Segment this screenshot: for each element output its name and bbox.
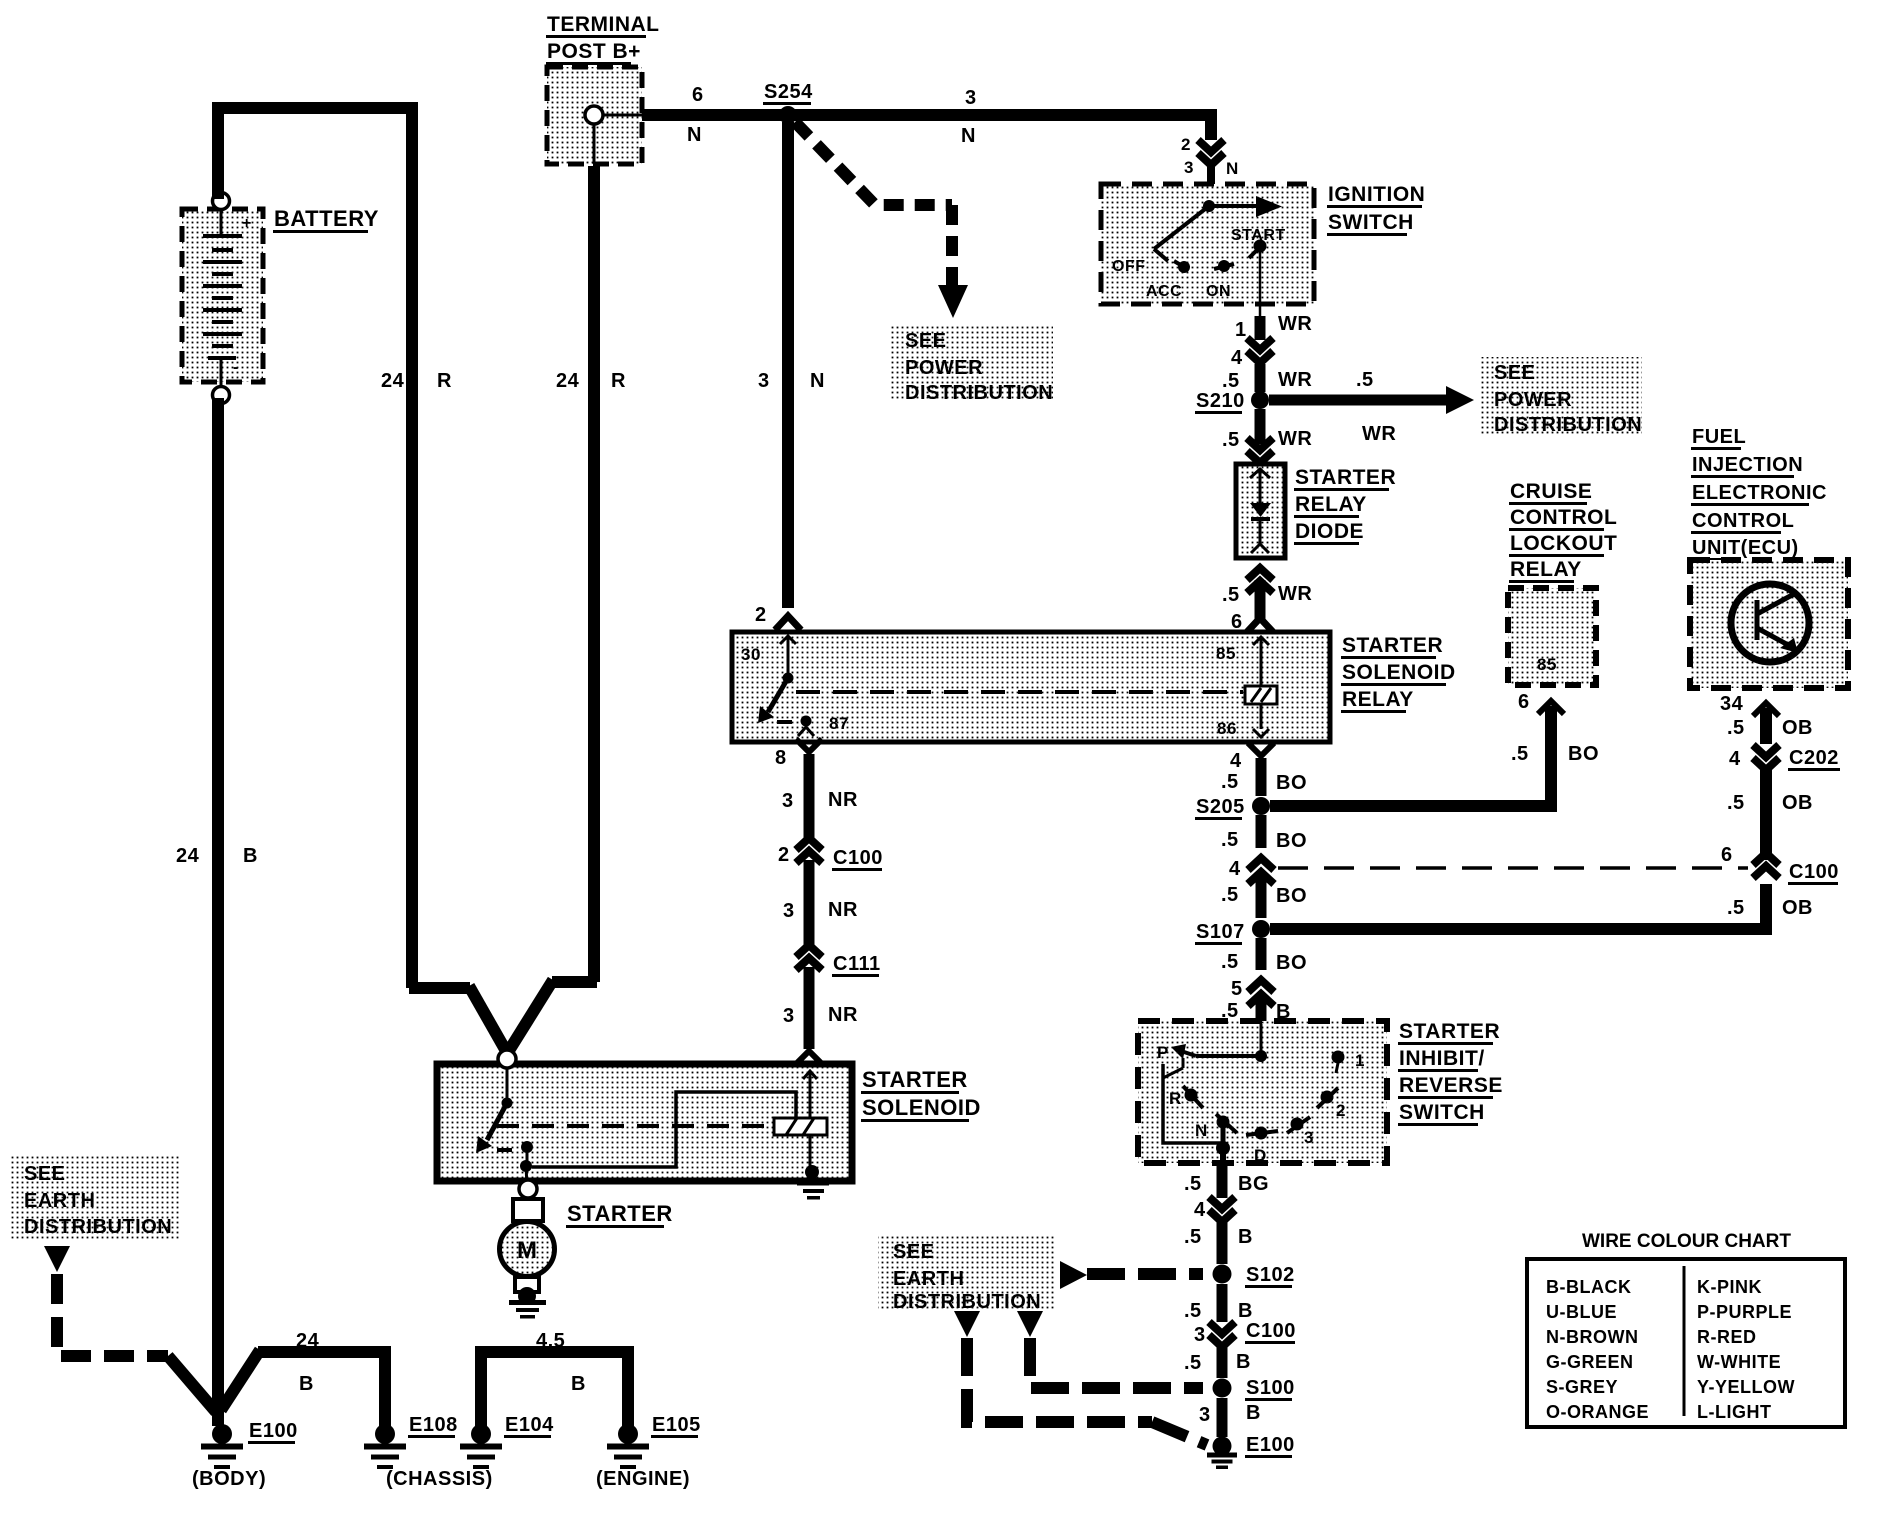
svg-text:24: 24 (176, 845, 200, 867)
svg-text:NR: NR (828, 789, 858, 811)
svg-text:STARTER: STARTER (862, 1067, 968, 1092)
svg-text:1: 1 (1235, 319, 1247, 341)
svg-text:U-BLUE: U-BLUE (1546, 1302, 1617, 1322)
svg-text:R: R (437, 370, 452, 392)
svg-text:B: B (1236, 1351, 1251, 1373)
svg-text:4: 4 (1231, 347, 1243, 369)
wire C100 to S100, .5 B (1217, 1347, 1228, 1378)
svg-text:.5: .5 (1511, 743, 1529, 765)
solenoid internal ground (797, 1181, 829, 1200)
label SEE POWER DISTRIBUTION (right) (1480, 357, 1642, 436)
svg-text:STARTER: STARTER (1399, 1020, 1500, 1043)
svg-text:NR: NR (828, 1004, 858, 1026)
label TERMINAL POST B+ (546, 13, 660, 65)
wire E104 to E105, 4.5 B (481, 1352, 628, 1426)
svg-text:C100: C100 (1789, 861, 1839, 883)
svg-text:4: 4 (1194, 1199, 1206, 1221)
label E100 right (1245, 1434, 1295, 1458)
svg-text:STARTER: STARTER (567, 1201, 673, 1226)
label 4 .5 BO (1221, 750, 1307, 794)
svg-text:+: + (242, 215, 252, 232)
node S107 (1252, 920, 1270, 938)
svg-text:O-ORANGE: O-ORANGE (1546, 1402, 1649, 1422)
svg-text:SEE: SEE (905, 330, 947, 352)
svg-text:E105: E105 (652, 1414, 701, 1436)
fork pin 30 entry (775, 616, 801, 630)
svg-text:24: 24 (296, 1330, 320, 1352)
label .5 B (1184, 1300, 1253, 1322)
label 8 (775, 747, 787, 769)
svg-text:B-BLACK: B-BLACK (1546, 1277, 1631, 1297)
connector C100 bottom (1209, 1322, 1235, 1347)
arrow down 2 (1017, 1311, 1203, 1388)
label (CHASSIS) (386, 1468, 493, 1490)
svg-text:S100: S100 (1246, 1377, 1295, 1399)
label FUEL INJECTION ELECTRONIC CONTROL UNIT(ECU) (1691, 426, 1827, 561)
svg-text:STARTER: STARTER (1342, 634, 1443, 657)
label 6 N left segment (687, 84, 704, 146)
label E100 (248, 1420, 298, 1444)
svg-text:BO: BO (1276, 952, 1307, 974)
svg-text:N-BROWN: N-BROWN (1546, 1327, 1638, 1347)
starter motor M (500, 1180, 555, 1319)
svg-text:LOCKOUT: LOCKOUT (1510, 532, 1617, 555)
label .5 BO (1221, 829, 1307, 852)
ground E105 (607, 1424, 649, 1469)
label 3 B (1199, 1402, 1261, 1426)
label 34 .5 OB (1720, 693, 1813, 739)
label STARTER SOLENOID RELAY (1341, 634, 1456, 713)
label SEE EARTH DISTRIBUTION (middle) (878, 1236, 1056, 1313)
node S102 (1213, 1265, 1232, 1284)
svg-text:.5: .5 (1727, 792, 1745, 814)
label 3 NR (782, 789, 858, 812)
label 24 R battery wire (381, 370, 452, 392)
node S205 (1252, 797, 1270, 815)
starter relay diode D1 (1236, 464, 1285, 558)
wire relay pin 87 down, 8/3 NR (796, 739, 822, 842)
svg-text:DISTRIBUTION: DISTRIBUTION (24, 1216, 172, 1238)
svg-text:UNIT(ECU): UNIT(ECU) (1692, 537, 1799, 559)
label .5 WR arrow (1356, 369, 1396, 445)
svg-text:34: 34 (1720, 693, 1744, 715)
ignition switch box (1101, 184, 1314, 304)
svg-text:8: 8 (775, 747, 787, 769)
wire colour chart title (1582, 1231, 1791, 1252)
label CRUISE CONTROL LOCKOUT RELAY (1509, 480, 1617, 583)
svg-text:SOLENOID: SOLENOID (862, 1095, 981, 1120)
svg-text:C202: C202 (1789, 747, 1839, 769)
svg-text:DISTRIBUTION: DISTRIBUTION (1494, 414, 1642, 436)
svg-text:N: N (1226, 159, 1239, 178)
label 3 N vertical (758, 370, 825, 392)
wire diode to relay pin 85, .5 WR / 6 (1247, 568, 1273, 632)
svg-text:OB: OB (1782, 897, 1813, 919)
svg-text:2: 2 (1181, 135, 1191, 154)
svg-text:3: 3 (758, 370, 770, 392)
svg-text:B: B (1238, 1300, 1253, 1322)
wire C100 to C111, 3 NR (804, 860, 815, 948)
svg-text:G-GREEN: G-GREEN (1546, 1352, 1634, 1372)
wire S102 to C100, .5 B / 3 (1217, 1284, 1228, 1322)
svg-text:4: 4 (1230, 750, 1242, 772)
wire C202 to ECU, 34/.5 OB (1753, 703, 1779, 744)
svg-text:.5: .5 (1222, 370, 1240, 392)
svg-text:.5: .5 (1184, 1352, 1202, 1374)
svg-text:DISTRIBUTION: DISTRIBUTION (893, 1291, 1041, 1313)
terminal post B+ box (547, 67, 642, 164)
label 24 R post wire (556, 370, 626, 392)
label .5 BO (1221, 884, 1307, 907)
label BATTERY (273, 206, 379, 233)
label STARTER SOLENOID (861, 1067, 981, 1122)
svg-text:DISTRIBUTION: DISTRIBUTION (905, 382, 1053, 404)
svg-text:C111: C111 (833, 953, 881, 975)
label 6 C100 (1721, 844, 1839, 885)
wire C100 to C202, .5 OB (1760, 770, 1772, 860)
label SEE EARTH DISTRIBUTION (left) (10, 1156, 180, 1240)
svg-text:K-PINK: K-PINK (1697, 1277, 1762, 1297)
svg-text:INJECTION: INJECTION (1692, 454, 1803, 476)
wire S107 down, .5/5/.5 B (1248, 938, 1274, 1022)
svg-text:(CHASSIS): (CHASSIS) (386, 1468, 493, 1490)
svg-text:OB: OB (1782, 792, 1813, 814)
svg-text:SEE: SEE (24, 1163, 66, 1185)
starter solenoid relay K1 (732, 632, 1330, 742)
ground E100 (body) (201, 1424, 243, 1469)
svg-text:3: 3 (782, 790, 794, 812)
svg-text:B: B (1238, 1226, 1253, 1248)
wire S100 to E100, 3 B (1217, 1398, 1228, 1437)
svg-text:WR: WR (1278, 313, 1312, 335)
svg-text:.5: .5 (1184, 1300, 1202, 1322)
svg-text:FUEL: FUEL (1692, 426, 1746, 448)
svg-text:.5: .5 (1222, 429, 1240, 451)
svg-text:OFF: OFF (1112, 258, 1146, 275)
node S210 (1251, 391, 1269, 409)
svg-text:.5: .5 (1184, 1226, 1202, 1248)
wire into ignition switch (1207, 166, 1215, 204)
svg-text:M: M (517, 1237, 537, 1264)
label SEE POWER DISTRIBUTION (left) (890, 325, 1053, 404)
svg-text:P-PURPLE: P-PURPLE (1697, 1302, 1792, 1322)
label .5 OB (1727, 792, 1813, 814)
svg-text:B: B (571, 1373, 586, 1395)
svg-text:POST B+: POST B+ (547, 40, 641, 63)
label S102 (1245, 1264, 1295, 1288)
connector C100 (pin87 chain) (796, 838, 822, 863)
svg-text:B: B (299, 1373, 314, 1395)
svg-text:CONTROL: CONTROL (1510, 506, 1617, 529)
svg-text:4: 4 (1729, 748, 1741, 770)
svg-text:P: P (1157, 1043, 1169, 1062)
svg-text:RELAY: RELAY (1342, 688, 1414, 711)
label 2 pin30 entry (755, 604, 767, 626)
svg-text:S254: S254 (764, 81, 813, 103)
svg-text:6: 6 (1518, 691, 1530, 713)
svg-text:ACC: ACC (1146, 283, 1182, 300)
label .5 B (1184, 1226, 1253, 1248)
svg-text:3: 3 (1194, 1324, 1206, 1346)
svg-text:N: N (810, 370, 825, 392)
svg-text:C100: C100 (833, 847, 883, 869)
svg-text:.5: .5 (1222, 584, 1240, 606)
svg-text:3: 3 (1184, 158, 1194, 177)
svg-text:3: 3 (1199, 1404, 1211, 1426)
svg-text:R-RED: R-RED (1697, 1327, 1757, 1347)
wire S205 down, .5 BO (1256, 815, 1267, 848)
label 4,5 B (536, 1330, 586, 1395)
label IGNITION SWITCH (1327, 183, 1425, 236)
svg-text:4,5: 4,5 (536, 1330, 565, 1352)
svg-text:E108: E108 (409, 1414, 458, 1436)
svg-text:86: 86 (1217, 719, 1237, 738)
svg-text:3: 3 (1304, 1128, 1314, 1147)
label STARTER RELAY DIODE (1294, 466, 1396, 545)
svg-text:5: 5 (1231, 978, 1243, 1000)
label S205 (1195, 796, 1245, 820)
svg-text:24: 24 (381, 370, 405, 392)
svg-text:POWER: POWER (1494, 389, 1572, 411)
svg-text:87: 87 (829, 714, 849, 733)
svg-text:BO: BO (1276, 885, 1307, 907)
svg-text:S102: S102 (1246, 1264, 1295, 1286)
svg-text:-: - (233, 359, 239, 376)
connector C111 (796, 945, 822, 970)
svg-text:N: N (961, 125, 976, 147)
svg-text:4: 4 (1229, 858, 1241, 880)
label 3 C100 (1194, 1320, 1296, 1346)
label E105 (651, 1414, 701, 1438)
svg-text:N: N (687, 124, 702, 146)
label STARTER INHIBIT/REVERSE SWITCH (1398, 1020, 1503, 1126)
svg-text:(BODY): (BODY) (192, 1468, 266, 1490)
wire terminal post down 24 R (510, 166, 597, 1049)
svg-text:SEE: SEE (1494, 362, 1536, 384)
label 4 (1194, 1199, 1206, 1221)
svg-text:STARTER: STARTER (1295, 466, 1396, 489)
svg-text:SWITCH: SWITCH (1399, 1101, 1485, 1124)
starter solenoid box (437, 1050, 852, 1186)
svg-text:.5: .5 (1221, 884, 1239, 906)
svg-text:W-WHITE: W-WHITE (1697, 1352, 1781, 1372)
starter inhibit/reverse switch box (1138, 1021, 1387, 1165)
svg-text:BG: BG (1238, 1173, 1269, 1195)
svg-text:ON: ON (1206, 283, 1231, 300)
wire E108 to body junction, 24 B (221, 1350, 385, 1426)
svg-text:RELAY: RELAY (1295, 493, 1367, 516)
label .5 BO / 5 / .5 B (1221, 951, 1307, 1023)
wire colour chart box (1527, 1259, 1845, 1427)
svg-text:SOLENOID: SOLENOID (1342, 661, 1456, 684)
svg-text:1: 1 (1355, 1051, 1365, 1070)
svg-text:NR: NR (828, 899, 858, 921)
label E104 (504, 1414, 554, 1438)
cruise control lockout relay box (1508, 588, 1596, 685)
label 24 B battery wire (176, 845, 258, 867)
arrow down left (44, 1246, 216, 1412)
wire relay pin 86 down, 4/.5 BO (1248, 743, 1274, 796)
ground E108 (364, 1424, 406, 1469)
wire ignition switch to S210, 1/4/.5 WR (1247, 304, 1273, 392)
svg-text:INHIBIT/: INHIBIT/ (1399, 1047, 1485, 1070)
ground E104 (460, 1424, 502, 1469)
svg-text:.5: .5 (1727, 717, 1745, 739)
svg-text:CRUISE: CRUISE (1510, 480, 1592, 503)
battery BATTERY (182, 193, 263, 404)
node S254 (779, 106, 797, 124)
svg-text:(ENGINE): (ENGINE) (596, 1468, 690, 1490)
svg-text:E100: E100 (1246, 1434, 1295, 1456)
label 24 B (296, 1330, 320, 1395)
svg-text:SWITCH: SWITCH (1328, 211, 1414, 234)
label (ENGINE) (596, 1468, 690, 1490)
svg-text:TERMINAL: TERMINAL (547, 13, 660, 36)
svg-text:EARTH: EARTH (893, 1268, 964, 1290)
svg-text:S-GREY: S-GREY (1546, 1377, 1618, 1397)
label 3 NR (783, 899, 858, 922)
label .5 WR 6 (1222, 583, 1312, 633)
svg-text:CONTROL: CONTROL (1692, 510, 1794, 532)
svg-text:BATTERY: BATTERY (274, 206, 379, 231)
wire C111 to starter solenoid, 3 NR (796, 967, 822, 1064)
wire S107 to ECU chain (1270, 884, 1766, 929)
label .5 B (1184, 1351, 1251, 1374)
wire S210 down to diode, .5 WR (1247, 409, 1273, 463)
svg-text:EARTH: EARTH (24, 1190, 95, 1212)
wire battery positive 24 R (218, 108, 506, 1051)
svg-text:BO: BO (1568, 743, 1599, 765)
connector 4 (dashed branch) (1248, 858, 1274, 884)
label .5 OB right (1727, 897, 1813, 919)
svg-text:3: 3 (783, 900, 795, 922)
svg-text:BO: BO (1276, 830, 1307, 852)
label S107 (1195, 921, 1245, 945)
label STARTER (566, 1201, 673, 1228)
label .5 WR below S210 (1222, 428, 1312, 451)
svg-text:B: B (1246, 1402, 1261, 1424)
label C111 (832, 953, 881, 977)
wire terminal post to S254 to ignition, 6/3 N (642, 115, 1211, 140)
svg-text:S205: S205 (1196, 796, 1245, 818)
label 4 C202 (1729, 747, 1840, 771)
svg-text:S210: S210 (1196, 390, 1245, 412)
wire S205 to cruise relay (1270, 701, 1564, 806)
svg-text:WR: WR (1362, 423, 1396, 445)
arrow to S102 (1060, 1261, 1203, 1289)
label S210 (1195, 390, 1245, 414)
svg-text:B: B (243, 845, 258, 867)
svg-text:2: 2 (755, 604, 767, 626)
wire S254 down 3 N (782, 122, 794, 608)
label S254 (763, 81, 813, 105)
svg-text:WR: WR (1278, 428, 1312, 450)
label S100 (1245, 1377, 1295, 1401)
svg-text:30: 30 (741, 645, 761, 664)
ECU box with transistor symbol (1690, 560, 1848, 688)
svg-text:.5: .5 (1356, 369, 1374, 391)
svg-text:.5: .5 (1727, 897, 1745, 919)
label 4 (1229, 858, 1241, 880)
svg-text:R: R (611, 370, 626, 392)
label 2 C100 (778, 844, 883, 871)
connector C100 right (1753, 853, 1779, 878)
connector below main feed, 2/3 N (1198, 140, 1224, 165)
connector C202 (1753, 745, 1779, 770)
label .5 WR (1222, 369, 1312, 392)
svg-text:D: D (1254, 1146, 1267, 1165)
svg-text:BO: BO (1276, 772, 1307, 794)
label .5 BO cruise wire (1511, 743, 1599, 765)
svg-text:WR: WR (1278, 583, 1312, 605)
svg-text:N: N (1195, 1121, 1208, 1140)
svg-text:3: 3 (783, 1005, 795, 1027)
svg-text:.5: .5 (1221, 951, 1239, 973)
svg-text:DIODE: DIODE (1295, 520, 1364, 543)
svg-text:C100: C100 (1246, 1320, 1296, 1342)
label E108 (408, 1414, 458, 1438)
wire below connector 4, .5 BO (1256, 872, 1267, 918)
label 1 WR (1235, 313, 1312, 341)
label 3 NR (783, 1004, 858, 1027)
svg-text:REVERSE: REVERSE (1399, 1074, 1503, 1097)
dashed wire to C100 right (1278, 866, 1748, 870)
svg-text:E100: E100 (249, 1420, 298, 1442)
svg-text:3: 3 (965, 87, 977, 109)
svg-text:85: 85 (1216, 644, 1236, 663)
ground E100 (right) (1207, 1437, 1237, 1470)
svg-text:S107: S107 (1196, 921, 1245, 943)
svg-text:.5: .5 (1221, 771, 1239, 793)
svg-text:Y-YELLOW: Y-YELLOW (1697, 1377, 1795, 1397)
svg-text:85: 85 (1537, 655, 1557, 674)
wire inhibit switch down, .5 BG (1217, 1163, 1228, 1198)
svg-text:ELECTRONIC: ELECTRONIC (1692, 482, 1827, 504)
svg-text:.5: .5 (1184, 1173, 1202, 1195)
label (BODY) (192, 1468, 266, 1490)
svg-text:SEE: SEE (893, 1241, 935, 1263)
label 4 (1231, 347, 1243, 369)
svg-text:WR: WR (1278, 369, 1312, 391)
label .5 BG (1184, 1173, 1269, 1195)
label 3 N right segment (961, 87, 977, 147)
label 2 3 N (1181, 135, 1239, 178)
svg-text:2: 2 (778, 844, 790, 866)
svg-text:START: START (1231, 227, 1286, 244)
svg-text:OB: OB (1782, 717, 1813, 739)
connector 4 (1209, 1197, 1235, 1222)
wire battery negative 24 B (212, 398, 224, 1426)
svg-text:R: R (1169, 1089, 1182, 1108)
wire S210 to power distribution arrow, .5 WR (1269, 386, 1474, 414)
svg-text:WIRE COLOUR CHART: WIRE COLOUR CHART (1582, 1231, 1791, 1252)
svg-text:L-LIGHT: L-LIGHT (1697, 1402, 1771, 1422)
dashed wire S254 to power distribution (795, 122, 968, 318)
label 6 cruise pin (1518, 691, 1530, 713)
arrow down 1 (954, 1311, 1207, 1445)
svg-text:IGNITION: IGNITION (1328, 183, 1425, 206)
svg-text:.5: .5 (1221, 829, 1239, 851)
svg-text:2: 2 (1336, 1101, 1346, 1120)
svg-text:24: 24 (556, 370, 580, 392)
wire to S102, .5 B (1217, 1222, 1228, 1264)
svg-text:RELAY: RELAY (1510, 558, 1582, 581)
svg-text:POWER: POWER (905, 357, 983, 379)
svg-text:E104: E104 (505, 1414, 554, 1436)
svg-text:6: 6 (692, 84, 704, 106)
svg-text:6: 6 (1721, 844, 1733, 866)
node S100 (1213, 1379, 1232, 1398)
